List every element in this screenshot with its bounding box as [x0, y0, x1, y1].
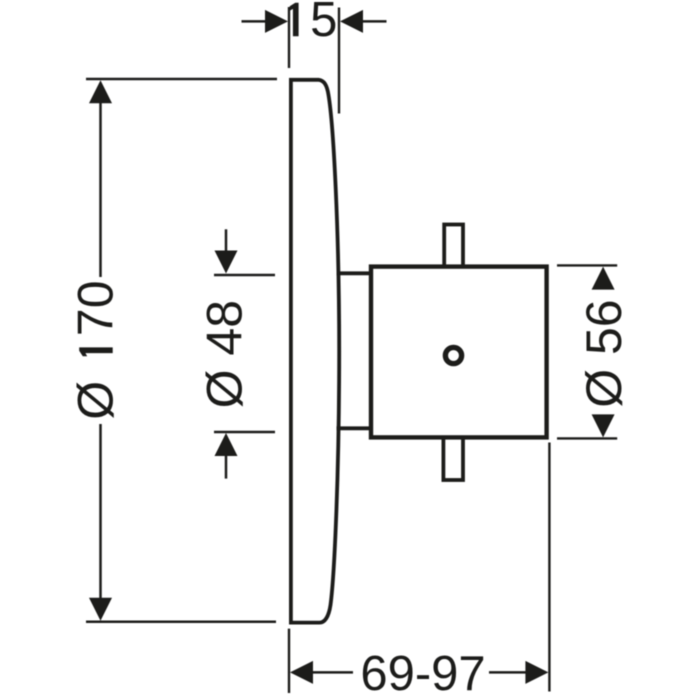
dim 170: top extension line: [86, 78, 277, 81]
label 15: digit 1: [290, 3, 299, 37]
dim 170: bottom arrowhead: [89, 598, 112, 621]
svg-text:70: 70: [68, 280, 124, 336]
handle square body: [371, 267, 547, 438]
dim 170: top arrowhead: [89, 80, 112, 103]
dim 69-97: left extension line: [288, 629, 290, 693]
dim 15: right arrow tail: [362, 20, 387, 23]
dim 15: left arrowhead: [265, 10, 288, 33]
dim 15: left extension line: [288, 7, 290, 68]
dim 170: bottom extension line: [86, 620, 276, 623]
dim 56: bottom arrowhead (down): [592, 414, 615, 437]
dim 48: bottom extension line: [214, 431, 275, 433]
dim 48: lower arrow tail: [225, 456, 228, 479]
dim 56: top extension line: [557, 264, 617, 266]
stem top line: [337, 271, 372, 275]
dim 170: dimension line upper segment: [99, 102, 102, 277]
handle top tab: [444, 225, 463, 267]
dim 69-97: left arrowhead (left): [290, 661, 313, 684]
handle bottom tab: [443, 437, 463, 480]
dim 15: right extension line: [338, 8, 340, 114]
dim 56: top arrowhead (up): [592, 267, 615, 290]
dim 48: upper arrowhead (down): [215, 251, 238, 274]
dim 56: bottom extension line: [557, 437, 617, 439]
dim 69-97: left arrow tail: [312, 671, 353, 674]
svg-text:Ø: Ø: [68, 381, 124, 420]
dim 15: left arrow tail: [242, 20, 267, 23]
dim 170: dimension line lower segment: [99, 424, 102, 600]
svg-text:69-97: 69-97: [360, 647, 485, 700]
svg-text:Ø 48: Ø 48: [197, 300, 253, 408]
handle center pin circle: [445, 347, 461, 363]
dim 48: top extension line: [214, 274, 275, 276]
dim 69-97: right arrow tail: [489, 671, 527, 674]
dim 48: lower arrowhead (up): [215, 433, 238, 456]
dim 69-97: right arrowhead (right): [525, 661, 548, 684]
dim 69-97: right extension line: [548, 443, 550, 692]
label diameter 170: [68, 280, 124, 419]
svg-text:5: 5: [310, 0, 337, 47]
escutcheon plate outline (side view): [291, 80, 339, 623]
stem bottom line: [337, 426, 372, 430]
svg-text:Ø 56: Ø 56: [576, 299, 632, 407]
dim 15: right arrowhead: [340, 10, 363, 33]
dim 48: upper arrow tail: [225, 229, 228, 251]
